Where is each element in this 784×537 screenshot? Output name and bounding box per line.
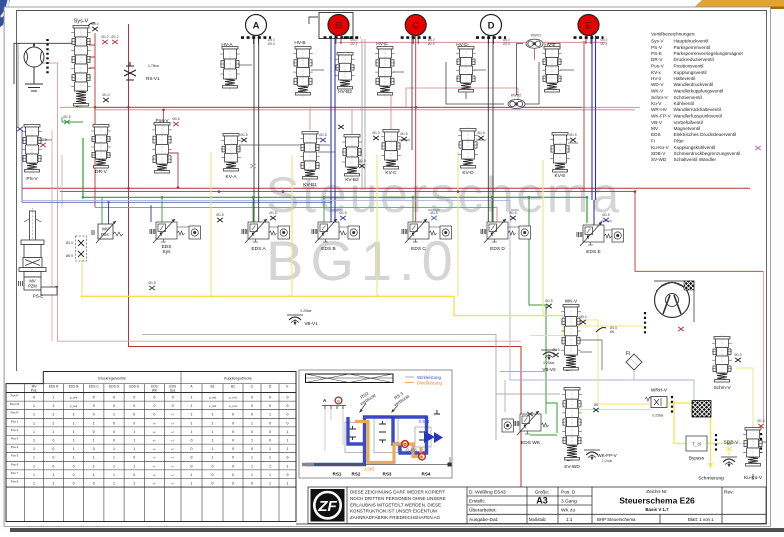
svg-text:0: 0 xyxy=(133,396,135,400)
svg-text:Ø1.0: Ø1.0 xyxy=(734,353,741,357)
svg-text:1: 1 xyxy=(251,421,253,425)
svg-text:+/-: +/- xyxy=(153,430,156,434)
svg-text:1: 1 xyxy=(33,464,35,468)
svg-text:1: 1 xyxy=(33,482,35,486)
valve SV-WD xyxy=(562,386,582,462)
svg-text:0: 0 xyxy=(113,430,115,434)
wire red top link y42 xyxy=(338,41,606,43)
svg-text:EDS C: EDS C xyxy=(411,246,426,252)
svg-text:0: 0 xyxy=(251,396,253,400)
inset legend xyxy=(405,376,414,378)
svg-text:Bypass: Bypass xyxy=(689,456,705,461)
svg-text:0: 0 xyxy=(133,473,135,477)
title block disclaimer xyxy=(350,490,446,521)
svg-text:0: 0 xyxy=(212,473,214,477)
svg-text:1: 1 xyxy=(191,482,193,486)
svg-text:T_öl: T_öl xyxy=(692,442,701,447)
wire blue pair E left xyxy=(591,36,593,201)
pump xyxy=(24,43,44,67)
svg-text:Ø5.0: Ø5.0 xyxy=(579,315,586,319)
wire green drop edssys xyxy=(161,197,163,222)
svg-text:0: 0 xyxy=(287,456,289,460)
state table xyxy=(6,372,296,522)
svg-text:Hauptdruckventil: Hauptdruckventil xyxy=(674,39,709,44)
node at 211,296.3 xyxy=(210,295,213,298)
wire blue pair B right xyxy=(334,36,336,223)
wire black C companion xyxy=(411,36,413,151)
dashed orifice block xyxy=(76,236,87,261)
svg-text:1: 1 xyxy=(52,482,54,486)
svg-text:1: 1 xyxy=(269,456,271,460)
svg-text:KV-B2: KV-B2 xyxy=(345,177,359,183)
svg-text:0: 0 xyxy=(52,464,54,468)
wire gray link sv-wd xyxy=(496,380,560,412)
wire gray rail mid xyxy=(142,335,496,441)
svg-text:1: 1 xyxy=(287,430,289,434)
svg-text:Schmierdruckbegrenzungsventil: Schmierdruckbegrenzungsventil xyxy=(674,151,741,156)
svg-text:3.Gang: 3.Gang xyxy=(561,499,577,505)
wire black left drop to PS-V xyxy=(17,43,19,128)
svg-text:KV-B1: KV-B1 xyxy=(303,182,317,188)
filter Fi xyxy=(626,354,642,370)
svg-text:HV-D: HV-D xyxy=(456,42,468,48)
svg-text:0: 0 xyxy=(232,482,234,486)
svg-text:Elektrisches Drucksteuerventil: Elektrisches Drucksteuerventil xyxy=(674,132,737,137)
wire yellow wrh to cooler xyxy=(668,402,692,404)
svg-text:Pos.: Pos. xyxy=(101,232,110,237)
svg-text:1: 1 xyxy=(113,447,115,451)
ground / sump symbol xyxy=(25,67,43,91)
node at 458,191.6 xyxy=(457,190,460,193)
valve KV-C xyxy=(381,128,401,171)
svg-text:WK: WK xyxy=(152,388,158,392)
svg-text:KV-D: KV-D xyxy=(462,170,474,176)
svg-text:1: 1 xyxy=(33,473,35,477)
WRH-V valve xyxy=(645,397,667,408)
svg-text:Ø2.5: Ø2.5 xyxy=(601,42,608,46)
svg-text:Magnetventil: Magnetventil xyxy=(674,126,701,131)
MV Pos valve xyxy=(92,221,123,243)
orifice at 758,148 xyxy=(755,146,761,150)
hook sys-v top xyxy=(88,23,95,26)
svg-text:Ø1.5: Ø1.5 xyxy=(569,133,576,137)
svg-text:Steuerschema E26: Steuerschema E26 xyxy=(619,496,695,506)
orifice at 681,329 xyxy=(678,327,684,331)
svg-text:0,544: 0,544 xyxy=(419,419,430,424)
svg-text:0: 0 xyxy=(191,447,193,451)
svg-text:0: 0 xyxy=(52,447,54,451)
svg-text:B: B xyxy=(337,399,340,403)
svg-text:WK-FP-V: WK-FP-V xyxy=(651,114,672,119)
svg-text:0: 0 xyxy=(93,396,95,400)
torque converter xyxy=(655,283,690,318)
svg-text:1:1: 1:1 xyxy=(566,517,573,522)
wire green main xyxy=(83,138,587,223)
svg-text:Ø1.5: Ø1.5 xyxy=(339,211,346,215)
svg-text:Ø1.0: Ø1.0 xyxy=(102,93,109,97)
svg-text:Kupplungsventil: Kupplungsventil xyxy=(674,70,707,75)
svg-text:0: 0 xyxy=(113,396,115,400)
svg-text:-0,456: -0,456 xyxy=(405,448,418,453)
orifice at 341,127 xyxy=(338,125,344,129)
svg-text:0: 0 xyxy=(269,430,271,434)
wire blue drop mv pos xyxy=(108,202,110,224)
svg-text:MV: MV xyxy=(651,126,659,131)
node at 178,187.6 xyxy=(177,186,180,189)
svg-text:+/-: +/- xyxy=(171,413,174,417)
svg-text:1: 1 xyxy=(251,464,253,468)
svg-text:0: 0 xyxy=(73,482,75,486)
svg-text:RS3: RS3 xyxy=(383,472,392,477)
inset axis line xyxy=(302,457,450,465)
svg-text:Ø2.5: Ø2.5 xyxy=(428,42,435,46)
svg-text:EDS A: EDS A xyxy=(251,246,266,252)
svg-text:SDB-V: SDB-V xyxy=(724,440,739,446)
orifice at 20,129 xyxy=(17,127,23,131)
EDS valve EDS WK xyxy=(514,411,549,435)
svg-text:1: 1 xyxy=(113,473,115,477)
svg-text:WK-V: WK-V xyxy=(565,299,578,305)
node at 163.5,109.8 xyxy=(162,109,165,112)
svg-text:+/-: +/- xyxy=(171,482,174,486)
svg-text:1: 1 xyxy=(93,439,95,443)
svg-text:ZAHNRADFABRIK FRIEDRICHSHAFEN: ZAHNRADFABRIK FRIEDRICHSHAFEN AG xyxy=(350,515,441,520)
node at 529,197.3 xyxy=(528,196,531,199)
svg-text:+/-: +/- xyxy=(171,456,174,460)
wire black wk links xyxy=(580,340,602,370)
orifice at 220,220 xyxy=(217,218,223,222)
svg-text:Ø5: Ø5 xyxy=(594,403,599,407)
svg-text:WR-HV: WR-HV xyxy=(651,107,668,112)
wire green stub ps-v xyxy=(62,117,83,122)
svg-text:MV: MV xyxy=(102,227,109,232)
node at 331,202.3 xyxy=(330,201,333,204)
wire black kwv2 frame xyxy=(446,62,539,104)
svg-text:A3: A3 xyxy=(536,496,548,506)
svg-text:0: 0 xyxy=(232,464,234,468)
wire red link hv-c xyxy=(385,42,391,130)
svg-text:Ø1.5: Ø1.5 xyxy=(400,132,407,136)
node at 587,197.3 xyxy=(586,196,589,199)
node at 82,296.3 xyxy=(81,295,84,298)
svg-text:Ø2.5: Ø2.5 xyxy=(351,42,358,46)
svg-text:Pos 2: Pos 2 xyxy=(11,428,19,432)
orifice at 513,218 xyxy=(510,216,516,220)
svg-text:WK-FP-V: WK-FP-V xyxy=(597,453,617,458)
svg-text:PZM: PZM xyxy=(28,284,37,289)
svg-text:Ø1.5: Ø1.5 xyxy=(269,211,276,215)
svg-text:RS1: RS1 xyxy=(333,472,342,477)
KW-V2 shuttle valve xyxy=(508,99,525,108)
svg-text:KV-x: KV-x xyxy=(651,70,662,75)
wire pink vert x52 xyxy=(51,130,53,341)
svg-text:HV-C: HV-C xyxy=(376,41,388,47)
orifice at 95,29 xyxy=(92,27,98,31)
svg-text:+/-: +/- xyxy=(153,439,156,443)
svg-text:1: 1 xyxy=(269,413,271,417)
orifice at 583,322 xyxy=(580,320,586,324)
node at 413,197.3 xyxy=(412,196,415,199)
svg-text:0: 0 xyxy=(232,456,234,460)
orifice at 67,122 xyxy=(64,120,70,124)
svg-text:0: 0 xyxy=(191,456,193,460)
svg-text:WRH-V: WRH-V xyxy=(651,388,668,394)
svg-text:1: 1 xyxy=(191,396,193,400)
svg-text:0: 0 xyxy=(232,473,234,477)
svg-text:1: 1 xyxy=(212,447,214,451)
svg-text:EDS A: EDS A xyxy=(49,385,59,389)
valve WK-V xyxy=(561,303,581,372)
svg-text:A: A xyxy=(253,20,260,31)
svg-text:0.25bar: 0.25bar xyxy=(300,309,312,313)
orifice at 115,42 xyxy=(112,40,118,44)
svg-text:0: 0 xyxy=(191,439,193,443)
svg-text:SV-WD: SV-WD xyxy=(651,157,667,162)
valve KV-A xyxy=(221,132,241,173)
svg-text:Ventilbezeichnungen:: Ventilbezeichnungen: xyxy=(651,32,696,37)
inset input comb xyxy=(322,406,346,410)
EDS valve EDS E xyxy=(577,222,612,246)
valve HV-C xyxy=(375,45,395,97)
svg-text:0: 0 xyxy=(172,404,174,408)
node at 674,403 xyxy=(673,402,676,405)
title block xyxy=(308,487,766,524)
wire yellow sdb link xyxy=(728,443,730,455)
svg-text:0: 0 xyxy=(232,413,234,417)
svg-text:Pos 6: Pos 6 xyxy=(11,462,19,466)
svg-text:WD-V: WD-V xyxy=(651,82,664,87)
svg-text:1: 1 xyxy=(251,456,253,460)
orifice at 362,166 xyxy=(359,164,365,168)
clutch port circle A xyxy=(246,15,267,36)
svg-text:Sys: Sys xyxy=(163,249,172,255)
node at 128.5,188.3 xyxy=(127,187,130,190)
svg-text:0: 0 xyxy=(113,421,115,425)
svg-text:Pos 8: Pos 8 xyxy=(11,480,19,484)
orifice at 729,449 xyxy=(726,447,732,451)
wire blue eds links xyxy=(331,210,612,226)
wire blue pair E right xyxy=(595,36,597,201)
wire red pos-v out xyxy=(168,153,178,188)
inset annotation RS2 verblockt xyxy=(356,388,377,407)
svg-text:Positionsventil: Positionsventil xyxy=(674,64,704,69)
svg-text:Pos 7: Pos 7 xyxy=(11,471,19,475)
svg-text:p_red: p_red xyxy=(229,396,237,400)
orifice at 761,426 xyxy=(758,424,764,428)
svg-text:Steuerschema: Steuerschema xyxy=(266,167,622,223)
svg-text:0: 0 xyxy=(269,404,271,408)
svg-text:0: 0 xyxy=(52,456,54,460)
svg-text:+/-: +/- xyxy=(153,447,156,451)
node at 516.5,107.3 xyxy=(515,106,518,109)
svg-text:+/-: +/- xyxy=(171,421,174,425)
svg-text:0: 0 xyxy=(269,421,271,425)
node at 108.5,202.3 xyxy=(107,201,110,204)
svg-text:1: 1 xyxy=(212,421,214,425)
valve WK-FP-V xyxy=(584,450,600,460)
wire green eds-wk link xyxy=(530,403,557,435)
wire red horiz y207 xyxy=(95,208,497,223)
svg-text:1: 1 xyxy=(212,439,214,443)
orifice at 530,414 xyxy=(527,412,533,416)
svg-text:EDS D: EDS D xyxy=(109,385,119,389)
node at 219,191.6 xyxy=(218,190,221,193)
inset blue arrows xyxy=(424,431,435,443)
svg-text:Schm-V: Schm-V xyxy=(651,95,669,100)
wire red link kv-b xyxy=(310,107,352,134)
svg-text:Halteventil: Halteventil xyxy=(674,76,696,81)
clutch port circle C xyxy=(405,15,426,36)
svg-text:1: 1 xyxy=(52,413,54,417)
wire red horiz y191 xyxy=(60,192,764,272)
ZF logo xyxy=(311,489,345,522)
svg-text:Pos.: Pos. xyxy=(31,388,37,392)
svg-text:Ø1.5: Ø1.5 xyxy=(509,211,516,215)
svg-text:p_red: p_red xyxy=(209,404,217,408)
svg-text:KWV1: KWV1 xyxy=(531,34,541,38)
svg-text:Ø1.0: Ø1.0 xyxy=(66,241,73,245)
svg-text:1: 1 xyxy=(212,413,214,417)
wire black pump to sysv xyxy=(14,43,73,84)
svg-text:Pos R: Pos R xyxy=(11,411,19,415)
node at 83,197.3 xyxy=(82,196,85,199)
svg-text:Überarbeitet:: Überarbeitet: xyxy=(469,507,497,514)
svg-text:Pos. D: Pos. D xyxy=(561,490,576,496)
wire red box hv-d xyxy=(406,88,518,107)
svg-text:HV-B2: HV-B2 xyxy=(338,89,352,95)
svg-text:0: 0 xyxy=(153,396,155,400)
svg-text:BG1.0: BG1.0 xyxy=(266,229,460,292)
orifice at 105,42 xyxy=(102,40,108,44)
svg-text:Ø1.5: Ø1.5 xyxy=(602,213,609,217)
svg-text:+/-: +/- xyxy=(171,447,174,451)
svg-text:BHP Steuerschema: BHP Steuerschema xyxy=(597,517,636,522)
legend Ventilbezeichnungen xyxy=(651,32,744,163)
svg-text:0: 0 xyxy=(269,439,271,443)
wire yellow cooler down xyxy=(710,417,712,468)
svg-text:PS-E: PS-E xyxy=(651,51,662,56)
svg-text:1: 1 xyxy=(287,482,289,486)
valve KV-B1 xyxy=(300,130,320,181)
svg-text:Pos N1: Pos N1 xyxy=(10,402,20,406)
svg-text:0: 0 xyxy=(251,430,253,434)
svg-text:C: C xyxy=(412,20,419,31)
svg-text:EDS WK: EDS WK xyxy=(521,440,541,446)
svg-text:1: 1 xyxy=(73,456,75,460)
svg-text:Wirkleistung: Wirkleistung xyxy=(417,375,441,380)
valve DR-V xyxy=(91,123,111,170)
wire yellow vert b xyxy=(291,155,293,296)
svg-text:0: 0 xyxy=(251,482,253,486)
svg-text:HV-x: HV-x xyxy=(651,76,662,81)
svg-text:0: 0 xyxy=(113,404,115,408)
valve HV-D xyxy=(456,45,476,94)
svg-text:0: 0 xyxy=(287,413,289,417)
dots kukue xyxy=(760,433,762,453)
wire yellow vert ps-e xyxy=(81,258,83,296)
EDS valve EDS C xyxy=(402,219,437,243)
svg-text:Schmierventil: Schmierventil xyxy=(674,95,702,100)
wire red stub pos-v xyxy=(163,110,165,123)
UI orange tab top right xyxy=(695,0,784,7)
svg-text:Ø1.5: Ø1.5 xyxy=(63,115,70,119)
valve HV-E xyxy=(542,45,562,94)
valve HV-A xyxy=(220,45,240,90)
svg-text:Druckregelventile: Druckregelventile xyxy=(98,377,126,381)
EDS valve EDS B xyxy=(312,219,347,243)
svg-text:0: 0 xyxy=(269,396,271,400)
inset blue power path xyxy=(306,416,427,465)
wire green drop edsd xyxy=(491,197,493,222)
svg-text:Schmierung: Schmierung xyxy=(698,476,724,482)
valve Ku-K&#252;-V xyxy=(743,426,763,468)
svg-text:1: 1 xyxy=(251,439,253,443)
svg-text:Kupplungsdrücke: Kupplungsdrücke xyxy=(224,377,252,381)
svg-text:1: 1 xyxy=(73,447,75,451)
svg-text:Pos 4: Pos 4 xyxy=(11,445,19,449)
svg-text:PS-V: PS-V xyxy=(651,45,663,50)
svg-text:Ø1.5: Ø1.5 xyxy=(545,299,552,303)
inset RS labels xyxy=(333,472,431,477)
orifice at 556,355 xyxy=(553,353,559,357)
wire yellow vert a xyxy=(210,152,212,296)
svg-text:Ø1.5: Ø1.5 xyxy=(358,159,365,163)
valve HV-B2 xyxy=(335,51,355,91)
orifice at 434,218 xyxy=(431,216,437,220)
svg-text:0: 0 xyxy=(93,447,95,451)
oil cooler crosshatch xyxy=(692,401,711,418)
svg-text:0: 0 xyxy=(232,430,234,434)
valve KV-E xyxy=(550,131,570,174)
svg-text:0: 0 xyxy=(287,421,289,425)
svg-text:0: 0 xyxy=(232,421,234,425)
svg-text:EDS D: EDS D xyxy=(490,246,505,252)
svg-text:Filter: Filter xyxy=(674,139,685,144)
svg-text:Schaltventil Wandler: Schaltventil Wandler xyxy=(674,157,717,162)
svg-text:1: 1 xyxy=(287,464,289,468)
svg-text:1: 1 xyxy=(113,413,115,417)
svg-text:B: B xyxy=(335,20,342,31)
svg-text:PS-V: PS-V xyxy=(26,176,38,182)
svg-text:DR-V: DR-V xyxy=(95,169,108,175)
svg-text:D: D xyxy=(488,20,495,31)
clutch port circle B xyxy=(328,15,349,36)
svg-text:Schm-V: Schm-V xyxy=(713,385,731,391)
svg-text:Ku-Kü-V: Ku-Kü-V xyxy=(651,145,670,150)
wire yellow wk right xyxy=(578,320,644,404)
node at 324,197.3 xyxy=(323,196,326,199)
orifice at 573,140 xyxy=(570,138,576,142)
svg-text:1: 1 xyxy=(269,482,271,486)
wire yellow wk-v area xyxy=(530,316,563,336)
svg-text:Ø1.2: Ø1.2 xyxy=(101,35,108,39)
EDS valve EDS D xyxy=(481,219,516,243)
orifice at 481,138 xyxy=(478,136,484,140)
svg-text:Ø1.5: Ø1.5 xyxy=(240,133,247,137)
wire green branch right xyxy=(529,197,557,433)
RS-V1 valve xyxy=(124,62,136,80)
measuring hook WK-V xyxy=(596,328,606,333)
svg-text:KV-E: KV-E xyxy=(555,173,566,179)
orifice at 176,124 xyxy=(173,122,179,126)
wire pink vert right x763 xyxy=(763,271,765,423)
clutch port circle E xyxy=(578,15,599,36)
svg-text:0.25bar: 0.25bar xyxy=(543,361,555,365)
svg-text:1: 1 xyxy=(52,473,54,477)
svg-text:Fi: Fi xyxy=(651,139,655,144)
wire yellow bypass right xyxy=(707,442,742,444)
svg-text:1: 1 xyxy=(93,456,95,460)
